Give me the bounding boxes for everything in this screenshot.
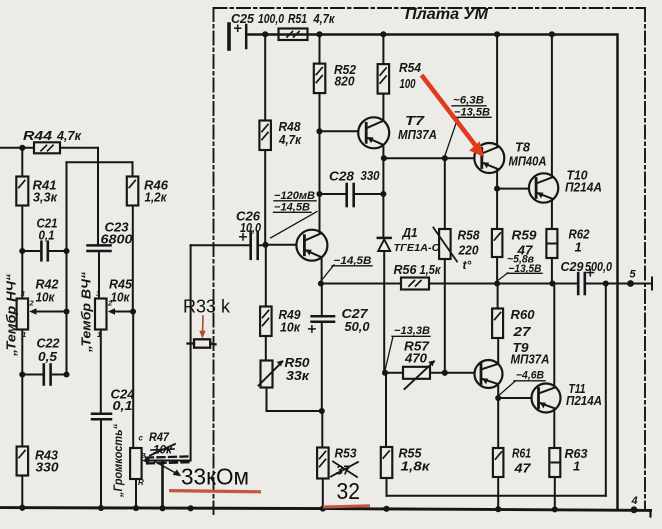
svg-text:220: 220 — [458, 243, 480, 258]
svg-text:МП40А: МП40А — [509, 155, 547, 169]
svg-text:1: 1 — [22, 330, 26, 339]
svg-text:R61: R61 — [512, 446, 531, 461]
svg-text:100,0: 100,0 — [258, 11, 285, 26]
svg-text:33к: 33к — [286, 368, 311, 383]
svg-text:Д1: Д1 — [402, 225, 418, 240]
svg-text:в: в — [141, 451, 146, 460]
svg-text:T8: T8 — [515, 140, 531, 155]
svg-text:1,5к: 1,5к — [420, 262, 442, 277]
svg-text:„Громкость“: „Громкость“ — [113, 424, 125, 498]
svg-text:1: 1 — [573, 459, 580, 474]
svg-text:3,3к: 3,3к — [33, 190, 58, 205]
svg-text:1,2к: 1,2к — [145, 190, 168, 205]
svg-text:R60: R60 — [511, 307, 536, 322]
svg-text:0,5: 0,5 — [38, 349, 58, 364]
svg-text:470: 470 — [404, 351, 428, 366]
svg-text:2: 2 — [107, 299, 113, 308]
svg-text:4,7к: 4,7к — [56, 128, 82, 143]
svg-text:−13,3В: −13,3В — [394, 325, 430, 337]
svg-text:−14,5В: −14,5В — [274, 202, 310, 214]
svg-text:0,1: 0,1 — [39, 228, 55, 243]
svg-text:C28: C28 — [329, 169, 355, 184]
svg-text:Плата УМ: Плата УМ — [405, 6, 489, 23]
svg-text:R47: R47 — [149, 430, 170, 444]
svg-text:100: 100 — [400, 76, 417, 91]
svg-text:330: 330 — [361, 168, 381, 183]
svg-text:R56: R56 — [394, 262, 418, 277]
svg-text:27: 27 — [512, 324, 531, 339]
svg-text:4,7к: 4,7к — [313, 11, 336, 26]
svg-text:ТГЕ1А-С: ТГЕ1А-С — [394, 242, 440, 254]
svg-text:330: 330 — [36, 460, 60, 475]
svg-text:„Тембр НЧ“: „Тембр НЧ“ — [5, 273, 19, 357]
svg-text:2: 2 — [29, 299, 35, 308]
svg-text:R33 k: R33 k — [183, 297, 231, 317]
svg-text:10к: 10к — [36, 290, 56, 305]
svg-text:10к: 10к — [111, 290, 131, 305]
svg-text:C29: C29 — [561, 259, 585, 274]
svg-text:−14,5В: −14,5В — [334, 255, 372, 267]
svg-text:47: 47 — [513, 461, 531, 476]
svg-text:R44: R44 — [23, 128, 53, 143]
svg-text:t°: t° — [463, 258, 472, 272]
svg-text:c: c — [139, 434, 144, 443]
svg-text:−120мВ: −120мВ — [274, 190, 315, 202]
svg-text:−13,5В: −13,5В — [509, 263, 542, 275]
svg-text:П214А: П214А — [566, 394, 602, 408]
svg-text:4,7к: 4,7к — [278, 132, 302, 147]
svg-text:МП37А: МП37А — [398, 128, 437, 142]
svg-text:МП37А: МП37А — [511, 353, 550, 367]
svg-text:5: 5 — [630, 269, 637, 281]
svg-text:0,1: 0,1 — [113, 398, 133, 413]
svg-text:500,0: 500,0 — [585, 259, 613, 274]
svg-text:4: 4 — [631, 495, 638, 507]
svg-text:R53: R53 — [335, 446, 358, 461]
svg-text:C25: C25 — [231, 11, 255, 26]
svg-text:П214А: П214А — [565, 181, 602, 195]
svg-text:1,8к: 1,8к — [401, 459, 432, 474]
svg-text:32: 32 — [337, 478, 361, 504]
svg-text:50,0: 50,0 — [345, 319, 371, 334]
svg-text:10,0: 10,0 — [240, 220, 262, 235]
svg-text:1: 1 — [97, 330, 101, 339]
svg-text:820: 820 — [335, 74, 356, 89]
svg-text:10к: 10к — [280, 320, 301, 335]
svg-text:33кОм: 33кОм — [181, 464, 249, 490]
svg-text:T7: T7 — [405, 113, 425, 128]
svg-text:6800: 6800 — [101, 232, 134, 247]
svg-text:„Тембр ВЧ“: „Тембр ВЧ“ — [80, 271, 94, 353]
svg-text:R58: R58 — [458, 228, 481, 243]
svg-text:1: 1 — [575, 240, 582, 255]
svg-text:R51: R51 — [288, 11, 307, 26]
svg-text:−13,5В: −13,5В — [454, 107, 490, 119]
svg-text:R54: R54 — [399, 60, 422, 75]
svg-text:~6,3В: ~6,3В — [453, 95, 484, 107]
svg-text:−4,6В: −4,6В — [516, 370, 544, 382]
svg-text:R59: R59 — [512, 228, 538, 243]
svg-text:R: R — [138, 478, 144, 487]
